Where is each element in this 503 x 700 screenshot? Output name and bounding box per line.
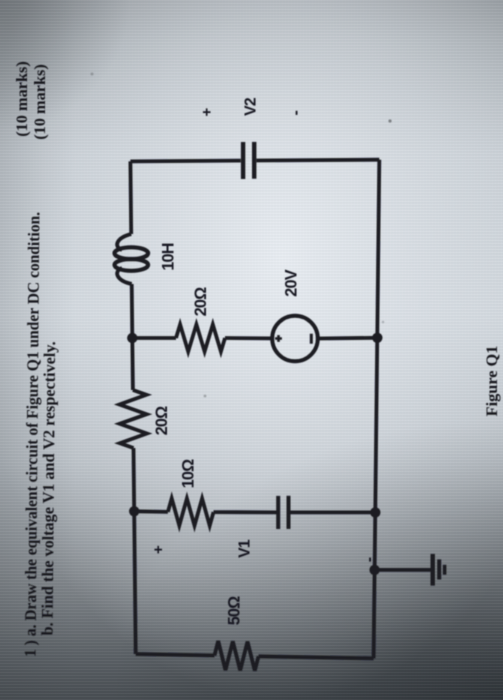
resistor R 20ohm (branch 1) <box>176 325 225 352</box>
dust speck 2 <box>204 395 207 398</box>
svg-text:-: - <box>361 557 378 562</box>
svg-text:Figure Q1: Figure Q1 <box>482 346 501 417</box>
wire right edge <box>374 160 380 659</box>
resistor R 10ohm <box>168 498 214 525</box>
svg-text:+: + <box>150 545 167 554</box>
wire left edge above inductor <box>128 161 133 234</box>
capacitor C1 plate 2 <box>287 496 291 529</box>
ground bar 3 <box>443 565 447 575</box>
wire ground stub <box>375 568 431 572</box>
junction node branch1-right <box>372 333 382 343</box>
svg-text:V2: V2 <box>243 97 260 116</box>
wire branch 1 right segment <box>318 336 378 341</box>
svg-text:20V: 20V <box>282 269 300 296</box>
capacitor C2 plate 1 <box>241 142 245 179</box>
svg-text:V1: V1 <box>237 539 254 558</box>
ground bar 1 <box>431 554 435 586</box>
svg-text:-: - <box>288 110 305 115</box>
ground bar 2 <box>437 559 441 579</box>
svg-text:20Ω: 20Ω <box>153 406 171 435</box>
junction node branch2-left <box>129 506 139 516</box>
junction node ground tap <box>369 565 379 575</box>
resistor R 20ohm (left edge) <box>120 390 147 448</box>
wire bottom edge right of R 50 <box>259 656 374 658</box>
svg-text:b. Find the voltage V1 and V2: b. Find the voltage V1 and V2 respective… <box>38 341 60 635</box>
capacitor C1 plate 1 <box>276 496 280 529</box>
wire branch 2 left segment <box>134 509 168 513</box>
wire branch 1 left segment <box>132 336 176 340</box>
svg-text:10Ω: 10Ω <box>179 459 197 488</box>
wire left edge between inductor and R 20 <box>132 284 133 390</box>
minus sign inside source <box>310 334 313 344</box>
wire top edge right of capacitor C2 <box>256 158 379 163</box>
junction node branch1-left <box>127 333 137 343</box>
svg-text:(10 marks): (10 marks) <box>12 61 31 137</box>
resistor R 50ohm <box>215 641 259 671</box>
svg-text:20Ω: 20Ω <box>192 287 210 316</box>
svg-text:(10 marks): (10 marks) <box>30 64 49 140</box>
svg-text:50Ω: 50Ω <box>225 596 243 625</box>
capacitor C2 plate 2 <box>252 142 256 179</box>
dust speck 1 <box>388 119 391 122</box>
wire top edge left of capacitor C2 <box>130 159 240 164</box>
dust speck 3 <box>382 321 385 324</box>
dust speck 4 <box>91 73 94 76</box>
plus sign inside source <box>275 335 282 342</box>
voltage source V 20V circle <box>272 316 318 362</box>
svg-text:+: + <box>198 107 215 116</box>
wire left edge below R 20 <box>134 448 136 654</box>
wire branch 2 middle segment <box>214 510 278 514</box>
wire branch 1 middle segment <box>225 336 272 340</box>
wire bottom edge left of R 50 <box>136 654 215 656</box>
wire branch 2 right segment <box>290 511 376 515</box>
svg-text:10H: 10H <box>159 243 177 270</box>
junction node branch2-right <box>370 507 380 517</box>
inductor L1 10H coil <box>117 234 131 250</box>
